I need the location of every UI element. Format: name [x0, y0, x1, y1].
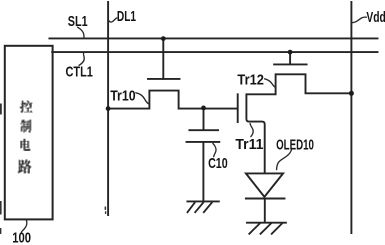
leader line for label Tr12 [265, 79, 276, 87]
OLED10 diode triangle (anode) [246, 173, 283, 197]
leader line for label Tr11 [250, 124, 253, 137]
wire DL1 (data line, vertical) [107, 2, 109, 215]
wire capacitor C10 top lead (from node A) [203, 109, 205, 130]
leader line for label C10 [213, 143, 216, 156]
node junction dot DL1 / Tr10 source [106, 106, 111, 111]
transistor Tr12 channel, drain wire to Vdd, source wire into transistor Tr11 channel and down to OLED10 anode [246, 74, 351, 172]
leader line for label 100 [21, 220, 27, 233]
ground hatch strokes (under OLED10) [249, 224, 282, 234]
node junction dot on CTL1 at Tr12 gate lead [288, 50, 293, 55]
leader line for label CTL1 [79, 53, 84, 65]
svg-text:DL1: DL1 [117, 9, 136, 25]
CJK text 控制电路 (control circuit) placeholder [18, 101, 33, 174]
control circuit block 100 [5, 46, 53, 220]
ground bar (under OLED10) [247, 222, 286, 224]
svg-text:Tr11: Tr11 [235, 137, 263, 153]
svg-text:C10: C10 [208, 156, 228, 172]
svg-text:Vdd: Vdd [366, 10, 385, 26]
scan artifact marks on left page edge [0, 104, 2, 115]
transistor Tr10 gate bar [148, 78, 180, 80]
leader line for label Tr10 [136, 93, 149, 104]
wire CTL1 (control line, horizontal) [52, 51, 377, 53]
wire gate lead Tr10 (from SL1 down to gate) [162, 38, 164, 79]
transistor Tr12 gate bar [274, 63, 307, 65]
svg-text:OLED10: OLED10 [276, 137, 314, 153]
svg-text:CTL1: CTL1 [66, 63, 93, 80]
OLED10 cathode bar [246, 198, 285, 200]
svg-text:Tr10: Tr10 [110, 88, 135, 104]
svg-text:SL1: SL1 [68, 13, 88, 30]
wire gate lead Tr12 (from CTL1 down to gate) [289, 52, 291, 64]
svg-text:100: 100 [12, 230, 31, 245]
wire SL1 (scan select line, horizontal) [49, 37, 377, 39]
capacitor C10 bottom plate [187, 141, 220, 143]
svg-text:Tr12: Tr12 [237, 72, 264, 88]
wire capacitor C10 bottom lead to ground [202, 143, 204, 201]
leader line for label Vdd [353, 17, 367, 22]
leader line for label DL1 [109, 18, 117, 22]
ground hatch strokes (under C10) [188, 203, 212, 212]
wire OLED10 cathode lead to ground [264, 199, 266, 223]
transistor Tr10 channel with source wire to DL1 and drain wire to node A [108, 91, 238, 109]
node A junction dot (Tr10 drain / C10 / Tr11 gate) [201, 106, 206, 111]
capacitor C10 top plate [189, 129, 218, 131]
leader line for label OLED10 [277, 150, 292, 170]
node junction dot Vdd / Tr12 drain [349, 91, 354, 96]
transistor Tr11 gate bar (vertical) [237, 94, 239, 122]
node junction dot on SL1 at Tr10 gate lead [161, 36, 166, 41]
ground bar (under C10) [187, 200, 218, 202]
wire Vdd (supply line, vertical) [350, 2, 352, 233]
leader line for label SL1 [78, 27, 84, 38]
